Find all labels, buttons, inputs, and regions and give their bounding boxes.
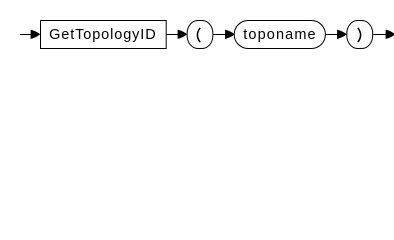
label ( bbox=[197, 28, 200, 42]
wire box to ( bbox=[166, 34, 179, 35]
arrowhead into toponame bbox=[225, 30, 235, 39]
label ) bbox=[358, 28, 361, 42]
arrowhead into GetTopologyID box bbox=[31, 30, 41, 39]
arrowhead into ( bbox=[178, 30, 188, 39]
svg-text:GetTopologyID: GetTopologyID bbox=[49, 27, 156, 43]
arrowhead into ) bbox=[337, 30, 347, 39]
wire ( to toponame bbox=[213, 34, 226, 35]
oval toponame bbox=[234, 21, 325, 49]
arrowhead end bbox=[386, 30, 394, 39]
wire toponame to ) bbox=[325, 34, 338, 35]
box GetTopologyID bbox=[41, 21, 167, 49]
svg-text:toponame: toponame bbox=[243, 27, 315, 43]
terminal circle ( bbox=[187, 21, 213, 49]
background bbox=[0, 0, 394, 58]
terminal circle ) bbox=[347, 21, 373, 49]
wire start segment bbox=[20, 34, 32, 35]
wire ) to end bbox=[373, 34, 386, 35]
